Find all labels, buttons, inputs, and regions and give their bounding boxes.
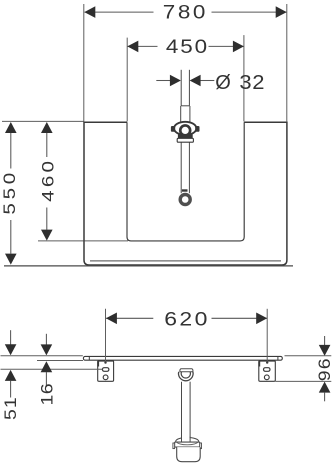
svg-text:780: 780 [163, 2, 208, 23]
extension line 450 left [126, 38, 128, 122]
dimension 96 [315, 336, 333, 401]
cup body [177, 447, 201, 462]
extension line 620 right [266, 309, 268, 364]
console inner bottom line [90, 260, 281, 262]
trap locknut dark band [178, 134, 193, 138]
svg-text:16: 16 [38, 383, 56, 405]
svg-text:51: 51 [1, 396, 19, 420]
dimension 51 [1, 330, 19, 420]
trap body ellipse front view [174, 122, 196, 135]
drain pipe front view [181, 70, 190, 193]
extension line slot axis left [1, 368, 103, 370]
extension line console top left [2, 120, 84, 122]
extension line 620 left [104, 309, 106, 364]
dimension diameter 32 [156, 72, 265, 94]
cup tab left [173, 443, 175, 449]
trap side view horseshoe outer [178, 372, 193, 381]
cup tab right [200, 443, 202, 449]
dimension 450 [127, 37, 244, 58]
slab joint left [88, 356, 90, 360]
wall bracket right [258, 361, 275, 382]
extension line slab top left [1, 355, 83, 357]
svg-text:32: 32 [239, 72, 265, 94]
console cutout [127, 122, 244, 241]
extension line cutout bottom [38, 240, 128, 242]
trap side pipe [182, 382, 191, 439]
dimension 550 left [0, 122, 19, 265]
svg-text:450: 450 [166, 37, 209, 58]
svg-text:620: 620 [164, 308, 209, 330]
dimension 460 left [39, 122, 58, 241]
svg-text:460: 460 [39, 158, 58, 202]
trap side view horseshoe inner [181, 372, 190, 378]
trap ring [180, 125, 190, 135]
wall bracket left [97, 361, 113, 382]
slab joint right [277, 356, 279, 360]
trap nut [177, 138, 193, 142]
extension line bracket bottom right [276, 380, 332, 382]
dimension 620 [106, 308, 267, 330]
extension line slab top right [285, 355, 332, 357]
extension line 780 right [286, 4, 288, 121]
console outline front view [84, 122, 287, 265]
floor line [4, 265, 293, 267]
svg-text:96: 96 [315, 357, 333, 381]
trap side view cap [180, 369, 193, 372]
console slab side strip [83, 356, 282, 360]
dimension 16 [38, 334, 56, 406]
extension line 780 left [83, 4, 85, 122]
svg-text:550: 550 [0, 169, 19, 215]
drain donut front view [180, 195, 190, 205]
cup rim lower arc [176, 442, 199, 445]
extension line 450 right [243, 35, 245, 121]
svg-text:Ø: Ø [215, 72, 231, 94]
dimension 780 top [84, 2, 286, 23]
cup clamp band [175, 442, 200, 447]
pipe over rim [182, 437, 191, 443]
trap side tabs [171, 126, 175, 132]
extension line slab bottom left [37, 360, 83, 362]
pipe clamp front view [182, 189, 188, 191]
cup rim ellipse [176, 438, 199, 446]
